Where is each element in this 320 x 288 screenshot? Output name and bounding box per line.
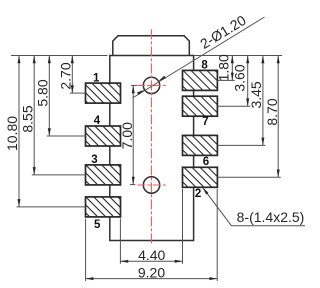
arrow at hole lower-left xyxy=(137,88,145,95)
pad 8 (right column) xyxy=(183,70,218,90)
tick at bottom hole center (7.00) xyxy=(130,184,136,186)
arrow 5.80 top xyxy=(48,56,51,64)
svg-text:1: 1 xyxy=(93,73,100,85)
arrow 3.45 top xyxy=(261,56,264,64)
pad 4 (left column) xyxy=(86,126,121,146)
svg-text:7.00: 7.00 xyxy=(119,122,135,149)
arrow 3.45 bottom xyxy=(261,138,264,146)
connector body outline xyxy=(110,56,194,241)
dimension line 3.45 xyxy=(262,56,264,146)
extension line 9.20 right xyxy=(216,189,218,281)
svg-text:8-(1.4x2.5): 8-(1.4x2.5) xyxy=(237,209,305,225)
dimension line 9.20 xyxy=(86,278,218,280)
dimension line 8.55 xyxy=(33,56,35,175)
top reference extension line (left) xyxy=(11,55,108,57)
arrow 5.80 bottom xyxy=(48,128,51,136)
dimension line 4.40 xyxy=(120,260,182,262)
extension line 4.40 right xyxy=(182,189,184,264)
svg-text:3: 3 xyxy=(91,154,97,166)
arrow 2.70 bottom xyxy=(71,85,74,93)
svg-text:1.80: 1.80 xyxy=(215,54,231,81)
arrow 7.00 bottom xyxy=(132,177,135,185)
arrow 10.80 bottom xyxy=(18,199,21,207)
svg-text:4: 4 xyxy=(94,115,101,127)
extension line pad5 center xyxy=(17,206,86,208)
arrow 8.55 top xyxy=(33,56,36,64)
arrow 1.80 top xyxy=(231,56,234,64)
arrow 8.55 bottom xyxy=(33,167,36,175)
mounting hole bottom (O1.20) xyxy=(143,177,159,193)
arrow 3.60 bottom xyxy=(246,98,249,106)
svg-text:8: 8 xyxy=(201,59,208,71)
svg-text:10.80: 10.80 xyxy=(4,116,20,151)
svg-text:6: 6 xyxy=(203,156,209,168)
leader line 2-O1.20 xyxy=(133,17,265,98)
svg-text:7: 7 xyxy=(202,116,208,128)
dimension line 2.70 xyxy=(71,56,73,94)
svg-text:2: 2 xyxy=(195,188,201,200)
svg-text:8.55: 8.55 xyxy=(19,105,35,132)
pad 5 (left column) xyxy=(86,197,121,217)
svg-text:5: 5 xyxy=(94,219,101,231)
vertical centerline (red) xyxy=(150,29,152,244)
svg-text:3.45: 3.45 xyxy=(248,81,264,108)
dimension line 5.80 xyxy=(48,56,50,137)
extension line 4.40 left xyxy=(119,219,121,264)
pad 7 (right column) xyxy=(183,96,218,116)
extension line pad2 center xyxy=(217,176,280,178)
pad 1 (left column) xyxy=(86,83,121,103)
dimension line 3.60 xyxy=(247,56,249,107)
mounting hole top (O1.20) xyxy=(143,77,159,93)
extension line pad7 center xyxy=(217,105,250,107)
arrow 9.20 left xyxy=(86,277,94,280)
horizontal centerline top hole (red) xyxy=(137,84,166,86)
tick at top hole center (7.00) xyxy=(131,84,137,86)
svg-text:5.80: 5.80 xyxy=(35,79,51,106)
pad 2 (right column) xyxy=(183,167,218,187)
dimension line 1.80 xyxy=(231,56,233,81)
leader line 8-(1.4x2.5) diagonal xyxy=(203,187,232,225)
svg-text:4.40: 4.40 xyxy=(138,247,165,263)
arrow 7.00 top xyxy=(132,85,135,93)
extension line 9.20 left xyxy=(85,219,87,281)
arrow 2.70 top xyxy=(71,56,74,64)
extension line pad4 center xyxy=(47,135,86,137)
arrow 1.80 bottom xyxy=(231,73,234,81)
pad 3 (left column) xyxy=(86,165,121,185)
extension line pad1 center xyxy=(70,92,86,94)
arrow 4.40 right xyxy=(175,260,183,263)
top reference extension line (right) xyxy=(194,55,282,57)
dimension line 7.00 xyxy=(132,85,134,184)
arrow 9.20 right xyxy=(209,277,217,280)
arrow at pad 2 xyxy=(201,186,208,194)
extension line pad8 center xyxy=(217,79,234,81)
top tab (chamfered boss) xyxy=(113,36,190,56)
pad 6 (right column) xyxy=(183,135,218,155)
leader line 8-(1.4x2.5) landing xyxy=(232,225,306,227)
dimension line 10.80 xyxy=(18,56,20,207)
arrow at hole upper-right xyxy=(158,76,166,83)
svg-text:2.70: 2.70 xyxy=(58,62,74,89)
arrow 8.70 bottom xyxy=(277,170,280,178)
extension line pad3 center xyxy=(32,174,86,176)
svg-text:3.60: 3.60 xyxy=(232,64,248,91)
arrow 3.60 top xyxy=(246,56,249,64)
arrow 10.80 top xyxy=(18,56,21,64)
arrow 8.70 top xyxy=(277,56,280,64)
arrow 4.40 left xyxy=(120,260,128,263)
dimension line 8.70 xyxy=(277,56,279,178)
svg-text:8.70: 8.70 xyxy=(264,98,280,125)
svg-text:9.20: 9.20 xyxy=(138,264,165,280)
horizontal centerline bottom hole (red) xyxy=(137,184,166,186)
extension line pad6 center xyxy=(217,144,265,146)
